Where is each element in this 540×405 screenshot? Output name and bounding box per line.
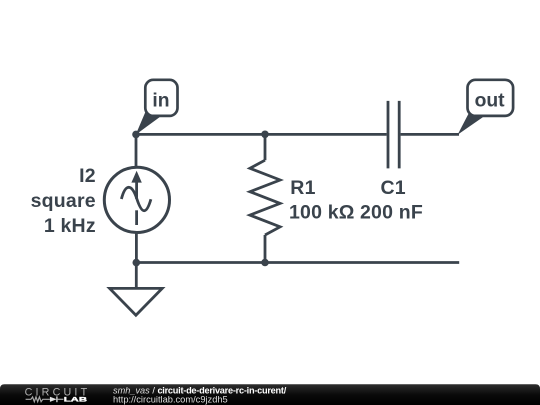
svg-text:http://circuitlab.com/c9jzdh5: http://circuitlab.com/c9jzdh5 — [113, 394, 228, 404]
svg-text:C1: C1 — [381, 177, 406, 199]
svg-text:R1: R1 — [290, 177, 315, 199]
svg-text:LAB: LAB — [64, 397, 88, 404]
svg-text:in: in — [152, 91, 169, 112]
svg-text:100 kΩ: 100 kΩ — [289, 201, 355, 223]
svg-text:200 nF: 200 nF — [360, 201, 423, 223]
svg-text:1 kHz: 1 kHz — [44, 215, 96, 237]
svg-text:square: square — [31, 190, 96, 212]
svg-text:out: out — [475, 91, 506, 112]
svg-text:I2: I2 — [79, 165, 96, 187]
